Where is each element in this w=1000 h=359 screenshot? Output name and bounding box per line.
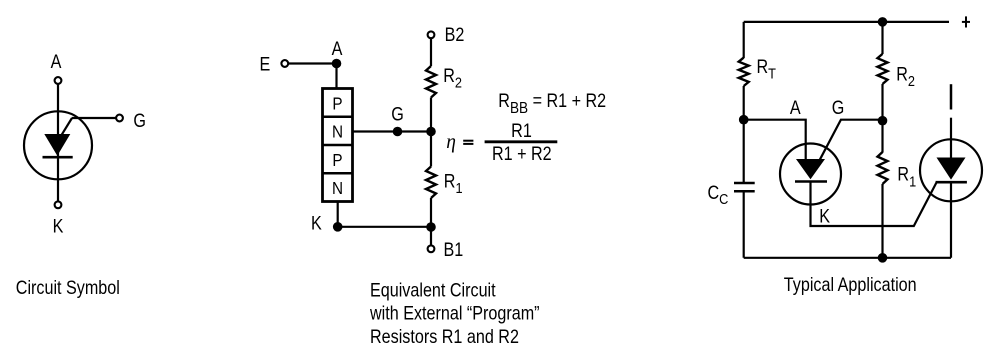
node K dot xyxy=(333,222,343,232)
wire gate diag app xyxy=(820,120,883,161)
svg-text:E: E xyxy=(260,53,271,75)
wire cathode xyxy=(57,157,59,201)
wire R1 to B1 node xyxy=(430,198,432,227)
resistor RT xyxy=(739,58,749,86)
SCR anode dash xyxy=(950,84,953,109)
svg-text:G: G xyxy=(832,97,845,119)
PNPN divider 2 xyxy=(323,144,353,146)
PUT body circle xyxy=(24,111,92,179)
wire R2 to node xyxy=(430,98,432,132)
wire node to capacitor xyxy=(743,120,745,183)
svg-text:B1: B1 xyxy=(444,239,464,261)
node G dot xyxy=(393,127,403,137)
PUT circle (application) xyxy=(780,144,841,205)
svg-text:Typical Application: Typical Application xyxy=(784,274,917,296)
wire stack to K xyxy=(337,202,339,227)
svg-text:R1 + R2: R1 + R2 xyxy=(492,143,552,165)
wire anode xyxy=(57,84,59,157)
svg-text:P: P xyxy=(332,93,342,113)
svg-text:with External “Program”: with External “Program” xyxy=(369,302,540,324)
wire bottom rail xyxy=(744,257,951,259)
terminal B1 xyxy=(428,245,435,252)
node middle junction xyxy=(878,116,888,126)
SCR circle xyxy=(920,139,982,201)
wire node to R1 app xyxy=(881,121,883,153)
node B1 junction xyxy=(426,222,436,232)
wire gate xyxy=(72,117,116,119)
svg-text:A: A xyxy=(332,38,343,60)
wire gate diagonal xyxy=(60,118,72,138)
svg-text:A: A xyxy=(51,51,62,73)
wire K to B1 xyxy=(338,226,431,228)
svg-text:G: G xyxy=(391,103,404,125)
equation equals bar1 xyxy=(463,140,473,142)
PNPN divider 1 xyxy=(323,116,353,118)
svg-text:Equivalent Circuit: Equivalent Circuit xyxy=(370,279,496,301)
svg-text:P: P xyxy=(332,150,342,170)
svg-text:B2: B2 xyxy=(445,24,465,46)
node A junction xyxy=(332,59,342,69)
terminal B2 xyxy=(428,31,435,38)
resistor R2 (equivalent) xyxy=(426,66,436,98)
wire R1 to bottom xyxy=(881,184,883,258)
terminal A xyxy=(55,77,62,84)
svg-text:G: G xyxy=(133,110,146,132)
equation equals bar2 xyxy=(463,143,473,145)
PNPN stack outline xyxy=(323,89,353,202)
PUT triangle app xyxy=(796,159,825,179)
PNPN divider 3 xyxy=(323,172,353,174)
fraction bar xyxy=(485,140,558,143)
resistor R1 app xyxy=(878,152,888,184)
capacitor CC plate 2 xyxy=(734,190,755,193)
terminal E xyxy=(281,60,288,67)
wire to B1 terminal xyxy=(430,227,432,245)
wire anode A xyxy=(744,120,806,160)
PUT bar app xyxy=(795,180,827,183)
svg-text:A: A xyxy=(790,97,801,119)
wire RT to node xyxy=(743,86,745,120)
node top junction xyxy=(878,17,888,27)
node bottom junction xyxy=(878,253,888,263)
terminal K xyxy=(55,201,62,208)
svg-text:Circuit Symbol: Circuit Symbol xyxy=(16,277,120,299)
svg-text:Resistors R1 and R2: Resistors R1 and R2 xyxy=(370,326,519,348)
PUT triangle xyxy=(44,134,70,156)
svg-text:N: N xyxy=(332,178,343,198)
svg-text:K: K xyxy=(53,215,64,237)
wire middle branch upper xyxy=(881,22,883,54)
SCR cathode wire xyxy=(950,182,952,258)
wire E to A xyxy=(288,62,336,64)
terminal G xyxy=(116,115,123,122)
wire A to stack xyxy=(335,64,337,90)
resistor R1 (equivalent) xyxy=(426,167,436,199)
SCR cathode bar xyxy=(936,181,967,184)
node left junction xyxy=(739,115,749,125)
wire B2 to R2 xyxy=(430,38,432,66)
svg-text:R1: R1 xyxy=(511,120,532,142)
wire top rail xyxy=(744,21,949,23)
svg-text:K: K xyxy=(311,212,322,234)
capacitor CC plate 1 xyxy=(734,182,755,185)
wire cathode K app xyxy=(811,182,937,227)
SCR anode wire xyxy=(950,118,952,158)
node R junction xyxy=(426,127,436,137)
wire capacitor to bottom xyxy=(743,191,745,257)
resistor R2 app xyxy=(878,54,888,84)
svg-text:N: N xyxy=(332,121,343,141)
wire gate to divider xyxy=(353,130,432,132)
PUT cathode bar xyxy=(43,156,73,159)
SCR triangle xyxy=(937,158,966,180)
wire R2 to node app xyxy=(881,84,883,121)
svg-text:η: η xyxy=(446,132,456,153)
svg-text:K: K xyxy=(819,205,830,227)
wire node to R1 xyxy=(430,132,432,167)
label plus supply xyxy=(962,21,970,23)
wire left branch upper xyxy=(743,22,745,58)
